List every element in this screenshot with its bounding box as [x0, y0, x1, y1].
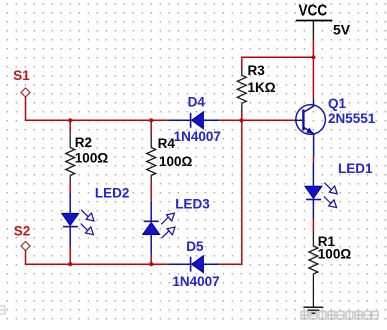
svg-text:R2: R2	[75, 135, 92, 150]
svg-text:1N4007: 1N4007	[172, 274, 219, 289]
transistor Q1	[296, 99, 326, 157]
wire top rail left segment	[25, 119, 168, 121]
wire VCC node down to Q1 collector	[312, 57, 314, 98]
ground	[303, 307, 323, 313]
LED2	[62, 193, 94, 246]
wire bottom rail left segment	[25, 263, 168, 265]
resistor R3	[237, 68, 246, 113]
svg-text:D5: D5	[186, 239, 204, 254]
svg-text:LED3: LED3	[175, 197, 210, 212]
wire R2 to LED2	[69, 182, 71, 193]
svg-text:R3: R3	[248, 63, 266, 78]
svg-text:100Ω: 100Ω	[159, 154, 193, 169]
LED3 (flipped: cathode bar on top, arrows point up-right)	[143, 201, 175, 255]
junction bottom rail / LED2	[68, 262, 72, 266]
junction top rail / R3	[239, 118, 243, 122]
wire R3 to top rail	[241, 112, 243, 120]
diode D5	[168, 256, 219, 273]
wire VCC to node	[312, 39, 314, 57]
wire LED2 to bottom rail	[69, 246, 71, 264]
resistor R2	[66, 120, 75, 182]
wire LED3 to bottom rail	[150, 255, 152, 265]
diode D4	[168, 112, 219, 129]
svg-text:LED1: LED1	[338, 161, 373, 176]
watermark fragment bottom-left	[0, 306, 5, 314]
svg-text:S2: S2	[14, 223, 31, 238]
connector S1 diamond	[21, 88, 30, 97]
svg-text:1KΩ: 1KΩ	[248, 80, 276, 95]
VCC pin	[312, 21, 314, 39]
junction VCC node	[311, 55, 315, 59]
LED1	[305, 163, 337, 220]
svg-text:VCC: VCC	[299, 3, 328, 20]
junction bottom rail / LED3	[149, 262, 153, 266]
junction top rail / R4	[149, 118, 153, 122]
resistor R4	[147, 120, 156, 182]
svg-text:100Ω: 100Ω	[75, 150, 109, 165]
watermark bottom-right	[301, 312, 378, 320]
connector S2 diamond	[21, 242, 30, 251]
wire LED1 to R1	[312, 219, 314, 232]
svg-text:5V: 5V	[333, 22, 351, 38]
svg-text:S1: S1	[13, 68, 30, 83]
svg-text:D4: D4	[188, 94, 206, 109]
svg-text:2N5551: 2N5551	[328, 111, 376, 126]
wire S2 to bottom rail	[25, 251, 27, 265]
svg-text:100Ω: 100Ω	[318, 247, 352, 262]
svg-text:LED2: LED2	[95, 185, 130, 200]
svg-text:R4: R4	[158, 136, 176, 151]
junction top rail / R2	[68, 118, 72, 122]
wire R4 to LED3	[150, 182, 152, 200]
wire VCC node to R3 top corner	[242, 57, 314, 67]
resistor R1	[309, 232, 318, 307]
svg-text:Q1: Q1	[328, 96, 347, 111]
wire top rail mid segment (D4 anode side to R3 junction to Q1 base)	[219, 119, 296, 121]
wire Q1 emitter to LED1	[313, 157, 315, 163]
svg-text:1N4007: 1N4007	[174, 129, 221, 144]
wire bottom rail right segment, corner up to top rail	[219, 120, 242, 264]
VCC power symbol bar	[296, 20, 333, 22]
wire S1 to top rail	[25, 97, 27, 120]
